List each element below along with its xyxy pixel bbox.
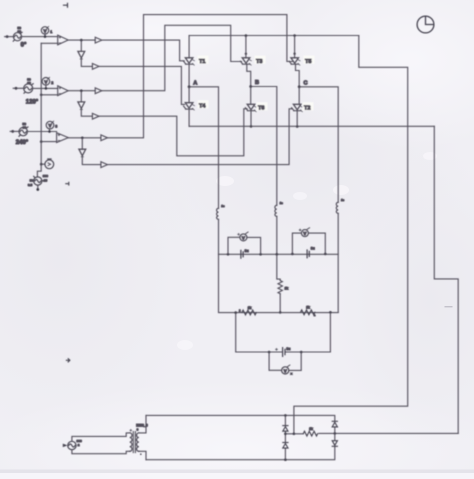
svg-text:T2: T2 — [304, 106, 311, 112]
wire bottom rail cathodes — [189, 125, 434, 127]
buffer A3 — [92, 64, 99, 70]
resistor R8 — [242, 310, 256, 315]
inverter A8 — [79, 149, 86, 157]
wire to inverter A2 — [80, 40, 82, 51]
svg-text:60: 60 — [17, 30, 21, 34]
transformer TS1 primary — [130, 433, 132, 451]
transformer TS1 secondary — [137, 433, 139, 451]
oscilloscope probe XSC1 — [45, 159, 54, 169]
svg-text:2: 2 — [78, 443, 80, 447]
voltmeter V3 — [46, 121, 54, 129]
svg-text:0°: 0° — [21, 42, 27, 48]
wire minus input U2 — [41, 94, 58, 96]
svg-text:1k: 1k — [309, 427, 313, 431]
wire — [81, 109, 92, 116]
svg-text:120°: 120° — [26, 99, 39, 105]
source V600 output — [68, 441, 76, 449]
wire voltmeter loop A — [228, 237, 261, 254]
node junction above T5 — [293, 53, 295, 55]
op-amp comparator U3 — [57, 133, 69, 143]
thyristor T3 — [240, 58, 251, 65]
source V3in (240deg) — [19, 127, 28, 136]
wire T5 cathode jog to node C — [296, 64, 300, 87]
voltmeter U5 — [301, 230, 308, 237]
wire node B takeoff — [251, 87, 277, 206]
wire T4 cathode — [188, 109, 190, 126]
wire meter V2 lead — [45, 85, 47, 88]
buffer A1 — [95, 37, 102, 43]
svg-text:1: 1 — [50, 30, 52, 34]
thyristor T1 — [184, 58, 195, 65]
wire reference trunk — [40, 43, 42, 164]
capacitor C1 — [241, 250, 243, 258]
wire — [5, 36, 14, 38]
voltmeter V1 — [41, 26, 48, 34]
stray mark top — [64, 3, 68, 7]
source V2in (120deg) — [24, 84, 34, 93]
wire gate T2 — [108, 109, 293, 165]
wire to inverter A8 — [81, 138, 83, 149]
label T2 — [303, 102, 314, 110]
wire left diode branch — [284, 415, 286, 459]
wire T5 anode — [294, 36, 296, 58]
terminal ramp ground — [36, 188, 39, 191]
node junction — [268, 351, 271, 354]
svg-text:T4: T4 — [199, 104, 206, 110]
svg-text:V: V — [303, 231, 306, 236]
wire T1 anode — [188, 36, 190, 58]
inverter A2 — [78, 51, 85, 59]
polarity arrow — [63, 444, 67, 447]
node junction — [300, 351, 303, 354]
label T3 — [255, 56, 266, 64]
node junction — [259, 253, 262, 256]
node junction — [245, 34, 248, 37]
svg-text:B: B — [255, 80, 259, 86]
wire gate T1 — [102, 40, 184, 61]
wire mid link — [285, 433, 294, 435]
node junction trunk scope tap — [40, 163, 43, 166]
wire right diode branch — [334, 427, 336, 441]
svg-text:60: 60 — [23, 126, 27, 130]
terminal input 120deg — [15, 87, 18, 90]
wire L1 down to rail — [218, 220, 220, 255]
buffer A7 — [101, 135, 108, 141]
svg-text:8u: 8u — [286, 347, 290, 351]
inductor L2 — [275, 205, 277, 216]
wire — [13, 87, 23, 89]
node junction — [291, 253, 294, 256]
wire primary bottom — [72, 450, 130, 454]
diode D2 — [283, 443, 288, 449]
wire U3 output — [68, 137, 101, 139]
svg-text:1k: 1k — [306, 306, 310, 310]
svg-text:V: V — [242, 235, 245, 240]
wire load rail 1 — [219, 254, 339, 312]
svg-text:T6: T6 — [258, 106, 265, 112]
node junction — [234, 311, 237, 314]
svg-text:3: 3 — [55, 125, 57, 129]
node junction — [296, 125, 299, 128]
label T1 — [198, 56, 209, 64]
wire minus input U3 — [41, 141, 56, 143]
wire node B to T6 — [250, 87, 252, 105]
wire to inverter A5 — [80, 91, 82, 102]
buffer A6 — [92, 113, 99, 119]
bottom scanner shadow — [0, 470, 474, 474]
thyristor T4 — [184, 103, 195, 110]
node junction above T3 — [245, 53, 247, 55]
diode D1 — [283, 426, 288, 432]
wire R10 right lead to output — [319, 432, 458, 434]
voltmeter U6 — [282, 367, 289, 374]
svg-text:T5: T5 — [305, 59, 312, 65]
node junction trunk tap 3 — [40, 140, 43, 143]
stray mark low — [66, 359, 69, 362]
svg-text:50: 50 — [30, 178, 34, 182]
wire — [81, 58, 92, 66]
wire R7 to rail 2 — [279, 294, 281, 313]
node junction trunk tap 2 — [40, 94, 43, 97]
wire — [10, 130, 19, 132]
svg-text:C: C — [304, 81, 308, 87]
buffer A4 — [95, 88, 102, 94]
svg-text:1s: 1s — [341, 198, 345, 202]
voltmeter V2 — [42, 77, 50, 85]
node junction — [284, 458, 287, 461]
node B junction — [249, 85, 252, 88]
resistor R7 — [278, 281, 282, 294]
wire gate T3 — [102, 25, 242, 90]
stray faint dash right — [445, 306, 453, 308]
svg-text:8u: 8u — [245, 249, 249, 253]
svg-text:A: A — [193, 81, 197, 87]
node junction — [227, 253, 230, 256]
label U4 plus — [238, 233, 240, 235]
label C3 plus — [276, 348, 278, 350]
diode D3 — [332, 421, 337, 427]
inductor L1 — [217, 208, 219, 219]
wire bridge rail to output mid — [434, 126, 458, 433]
wire lower cap loop — [236, 312, 331, 352]
wire node A takeoff — [189, 87, 218, 209]
clock symbol X1 — [417, 16, 434, 33]
svg-text:V: V — [284, 369, 287, 374]
svg-text:1k: 1k — [248, 306, 252, 310]
label U5 plus — [299, 229, 301, 231]
svg-text:60: 60 — [27, 81, 31, 85]
wire top rail anodes — [189, 35, 359, 37]
capacitor C2 — [307, 250, 309, 258]
source V1in (0deg) — [13, 32, 22, 41]
label T5 — [304, 56, 315, 64]
wire voltmeter loop B — [292, 233, 325, 254]
wire L2 down to rail — [276, 217, 278, 255]
capacitor C3 — [283, 348, 285, 357]
wire — [37, 185, 39, 189]
label T6 — [257, 102, 268, 110]
wire gate T5 — [108, 15, 293, 138]
node junction — [80, 39, 83, 42]
node junction — [329, 311, 332, 314]
label T4 — [198, 100, 209, 108]
node junction — [293, 34, 296, 37]
label U4 tick — [246, 232, 248, 234]
label dot secondary — [140, 453, 142, 455]
node junction — [80, 89, 83, 92]
wire secondary bottom — [139, 451, 146, 459]
wire primary top — [72, 433, 130, 441]
node A junction — [188, 85, 191, 88]
wire node C takeoff — [299, 87, 338, 203]
wire node C to T2 — [298, 87, 300, 105]
wire rectifier top rail — [146, 415, 335, 420]
wire T1 cathode to node A — [188, 64, 190, 87]
transformer TS1 core — [133, 432, 135, 453]
node junction — [279, 311, 282, 314]
node junction — [284, 414, 287, 417]
svg-text:1s: 1s — [221, 204, 225, 208]
label U5 tick — [307, 228, 309, 230]
wire T3 cathode jog to node B — [247, 64, 251, 86]
thyristor T6 — [245, 104, 256, 111]
wire T2 cathode — [296, 111, 298, 127]
node junction — [44, 35, 47, 38]
diode D4 — [332, 441, 337, 447]
wire rectifier bottom rail — [146, 447, 335, 460]
wire — [82, 156, 101, 164]
svg-text:2: 2 — [51, 81, 53, 85]
svg-text:8u: 8u — [311, 246, 315, 250]
op-amp comparator U2 — [58, 86, 68, 96]
wire — [27, 131, 56, 133]
wire meter V1 lead — [44, 34, 46, 37]
node junction — [250, 125, 253, 128]
wire R10 left lead — [294, 433, 303, 435]
node junction B into rail — [276, 253, 279, 256]
wire trunk to ramp source — [37, 164, 41, 177]
svg-text:1s: 1s — [280, 201, 284, 205]
svg-text:-15: -15 — [43, 178, 48, 182]
wire load rail 2 — [219, 254, 339, 312]
node junction — [293, 433, 296, 436]
inductor L3 — [336, 202, 338, 213]
stray mark mid — [66, 182, 69, 185]
wire gate T6 — [99, 109, 247, 156]
resistor R9 — [301, 310, 315, 315]
label U6 tick — [288, 365, 290, 367]
wire voltmeter loop C — [269, 352, 301, 370]
voltmeter U4 — [240, 234, 247, 241]
wire L3 down to rail — [337, 214, 339, 254]
node junction left mid — [284, 433, 287, 436]
buffer A9 — [101, 162, 108, 168]
svg-text:0.5: 0.5 — [28, 183, 33, 187]
node junction right mid — [334, 432, 337, 435]
wire T6 cathode — [250, 111, 252, 127]
wire — [22, 36, 58, 38]
svg-text:T1: T1 — [199, 59, 206, 65]
wire — [33, 87, 58, 89]
terminal input 0deg — [6, 35, 9, 38]
thyristor T2 — [292, 104, 303, 111]
resistor R10 — [303, 431, 317, 436]
source V600 ramp — [34, 176, 42, 185]
node junction — [81, 137, 84, 140]
wire U2 output — [68, 90, 95, 92]
op-amp comparator U1 — [58, 35, 68, 45]
wire B column to R7 — [277, 254, 280, 280]
node junction — [45, 87, 48, 90]
wire meter V3 lead — [49, 129, 51, 132]
inverter A5 — [78, 102, 85, 110]
svg-text:240°: 240° — [16, 140, 29, 146]
wire node A to T4 — [188, 87, 190, 103]
wire gate T4 — [99, 66, 185, 104]
wire minus input U1 — [41, 42, 58, 44]
thyristor T5 — [289, 58, 300, 65]
wire T3 anode — [245, 36, 247, 58]
svg-text:1k: 1k — [285, 286, 289, 290]
wire U1 output — [68, 39, 95, 41]
terminal input 240deg — [11, 130, 14, 133]
wire scope lead — [41, 163, 45, 165]
node C junction — [298, 85, 301, 88]
wire secondary top riser — [139, 415, 146, 433]
wire right riser from top rail — [294, 36, 408, 434]
node junction — [48, 130, 51, 133]
label plus primary — [130, 429, 132, 431]
node junction — [324, 253, 327, 256]
svg-text:T3: T3 — [256, 59, 263, 65]
